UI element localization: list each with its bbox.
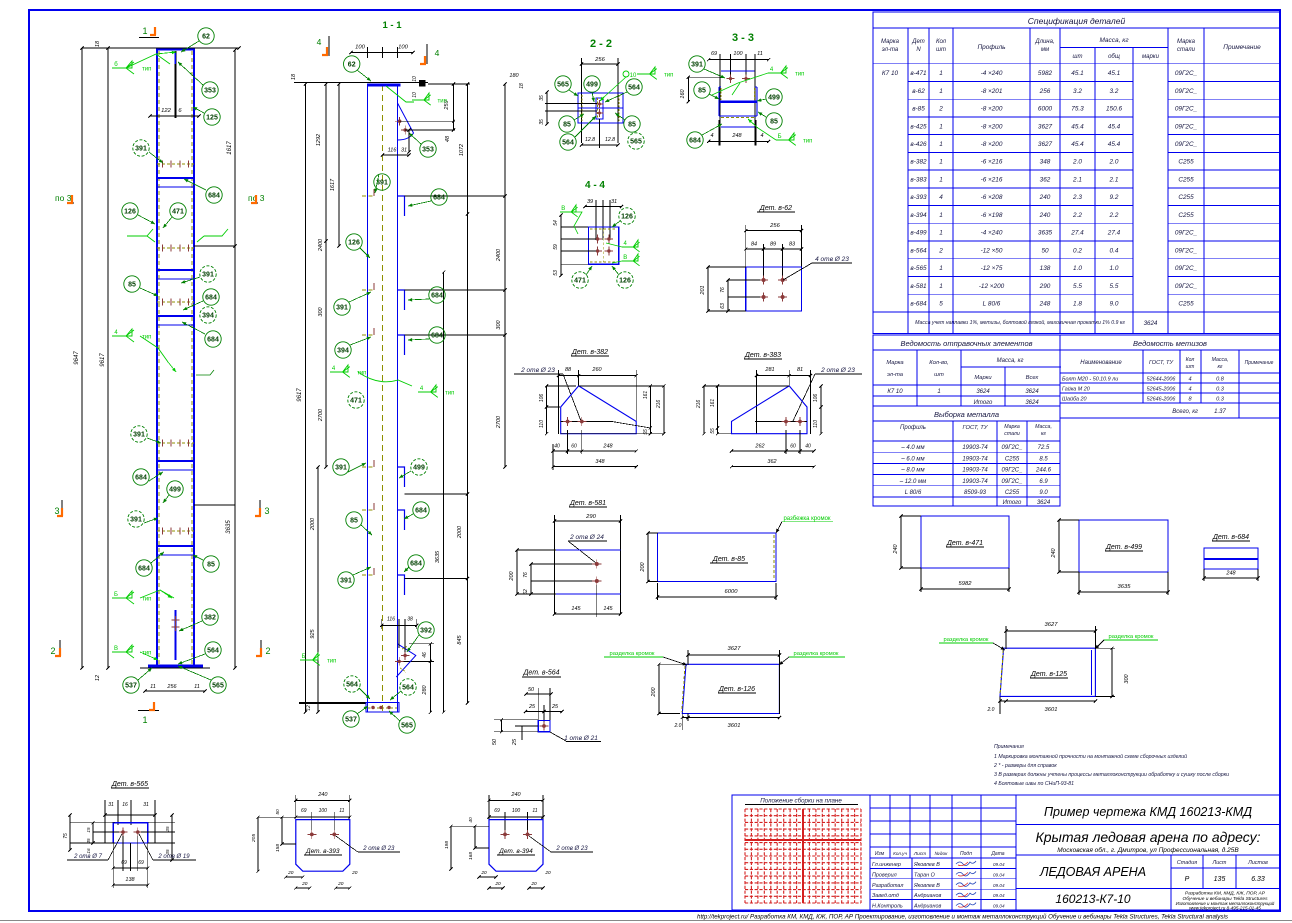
svg-text:3624: 3624 [1025,389,1039,395]
svg-text:1: 1 [939,230,943,237]
svg-text:2: 2 [938,247,943,254]
svg-text:684: 684 [138,566,150,573]
v-126 dims [688,654,779,656]
svg-text:8509-93: 8509-93 [964,490,987,496]
v-565 top dims [105,814,155,816]
svg-text:№док: №док [935,851,949,857]
svg-text:925: 925 [310,628,316,638]
v-684 dim 248 [1204,577,1258,579]
title block arena row [1170,855,1172,910]
v-383 plate triangle mirrored [732,386,808,434]
v-565 plate [113,823,148,843]
svg-text:40: 40 [468,817,474,823]
svg-text:684: 684 [135,475,147,482]
svg-text:– 12.0 мм: – 12.0 мм [899,479,927,485]
svg-text:300: 300 [1124,673,1130,683]
svg-text:2700: 2700 [496,415,502,429]
svg-text:290: 290 [1039,283,1051,290]
svg-text:2.0: 2.0 [1072,159,1082,166]
svg-text:684: 684 [410,561,422,568]
svg-text:в-62: в-62 [912,88,925,95]
balloon 126 left [122,203,138,219]
svg-text:в-426: в-426 [910,141,927,148]
svg-text:шт: шт [1073,54,1083,60]
svg-text:59: 59 [553,244,559,250]
svg-text:Итого: Итого [1003,500,1022,506]
svg-text:– 4.0 мм: – 4.0 мм [900,445,924,451]
svg-text:Марка: Марка [1004,424,1020,430]
v-564 top dim 50 [526,693,551,695]
svg-text:160: 160 [680,88,686,98]
svg-text:Проверил: Проверил [872,872,897,878]
svg-text:Кол-во,: Кол-во, [929,360,948,366]
svg-text:201: 201 [700,285,706,295]
Дет. в-394 plate with chamfers [489,820,543,872]
balloon 684 r3 [205,331,221,347]
svg-text:2.0: 2.0 [987,707,995,713]
balloon 499 [167,481,183,497]
svg-text:244.6: 244.6 [1035,468,1052,474]
svg-text:шт: шт [934,372,944,378]
svg-text:Профиль: Профиль [900,425,926,431]
svg-text:471: 471 [172,209,184,216]
svg-text:2: 2 [265,646,270,656]
svg-text:3635: 3635 [226,520,232,534]
svg-text:3 В размерах должны учтены пр: 3 В размерах должны учтены процессы мета… [994,772,1229,778]
svg-text:5.5: 5.5 [1073,283,1082,290]
title block middle signature table [889,795,891,858]
Дет. в-394 bottom chamfer dims [479,876,496,878]
svg-text:Разработка КМ, КМД, КЖ, ПОР, А: Разработка КМ, КМД, КЖ, ПОР, АР [1185,891,1266,897]
svg-text:161: 161 [643,391,649,400]
svg-text:4: 4 [317,37,322,47]
dim 116/31 gusset [408,130,410,152]
svg-text:разделка кромок: разделка кромок [1109,634,1154,640]
svg-text:391: 391 [691,62,703,69]
svg-text:391: 391 [135,146,147,153]
4-4 left chain [560,215,562,276]
svg-text:ГОСТ, ТУ: ГОСТ, ТУ [1149,360,1175,366]
v-383 left dims [717,386,719,434]
svg-text:45.4: 45.4 [1071,141,1084,148]
svg-text:564: 564 [562,140,574,147]
svg-text:248: 248 [602,444,613,450]
svg-text:18: 18 [519,83,525,89]
svg-text:4: 4 [1188,377,1191,383]
detail v-125 plate [1000,648,1095,696]
svg-text:69: 69 [711,51,717,57]
svg-text:69: 69 [494,808,500,814]
Дет. в-394 holes [503,833,507,837]
svg-text:31: 31 [401,148,407,154]
svg-text:-6 ×198: -6 ×198 [981,212,1003,219]
svg-text:10: 10 [630,73,637,79]
v-85 bottom dim 6000 [658,596,776,598]
v-62 holes [762,278,766,282]
svg-text:1: 1 [939,70,943,77]
spec table header [907,28,909,334]
weld symbol B left [112,591,134,604]
svg-text:19903-74: 19903-74 [962,468,988,474]
v-393 left chain dims [258,816,296,818]
svg-text:-4 ×240: -4 ×240 [981,230,1003,237]
weld symbol tip 4/4 left [112,329,134,342]
svg-text:Дет. в-499: Дет. в-499 [1105,544,1142,551]
svg-text:684: 684 [205,295,217,302]
svg-text:564: 564 [402,685,414,692]
Дет. в-393 holes [310,833,314,837]
svg-text:-12 ×75: -12 ×75 [981,265,1003,272]
svg-text:Наименование: Наименование [1080,360,1122,366]
red assembly grid [745,809,861,903]
svg-text:кг: кг [1217,364,1222,370]
v-62 dim 256 [746,230,802,232]
svg-text:248: 248 [731,133,742,139]
v-382 right dims [649,386,651,434]
svg-text:256: 256 [166,684,177,690]
v-565 left dims [69,815,71,850]
svg-text:27.4: 27.4 [1107,230,1121,237]
svg-text:Дет. в-85: Дет. в-85 [712,556,745,563]
svg-text:240: 240 [317,792,328,798]
svg-text:3.2: 3.2 [1073,88,1082,95]
v-382 hole line [561,421,612,423]
svg-text:разбежка кромок: разбежка кромок [783,516,830,522]
svg-text:85: 85 [698,88,706,95]
brackets right side and left splices 1-1 [373,189,375,196]
svg-text:2 - 2: 2 - 2 [590,38,612,50]
v-383 bottom dims [732,450,815,452]
svg-text:1: 1 [142,26,147,36]
svg-text:1617: 1617 [330,178,336,191]
svg-text:10: 10 [412,92,418,98]
svg-text:9.2: 9.2 [1110,194,1119,201]
svg-text:в-425: в-425 [910,123,927,130]
green tip B bottom [300,653,320,665]
svg-text:12.8: 12.8 [585,137,595,143]
svg-text:11: 11 [532,808,537,814]
svg-text:161: 161 [710,399,716,408]
v-684 angle [1204,548,1258,569]
balloon 62 view1-1 [344,56,360,72]
svg-text:18: 18 [291,73,297,80]
svg-text:тип: тип [664,73,673,79]
svg-text:684: 684 [208,193,220,200]
svg-text:Ведомость метизов: Ведомость метизов [1133,339,1207,348]
svg-text:Н.Контроль: Н.Контроль [872,904,903,910]
svg-text:48: 48 [445,135,451,142]
svg-text:Всего, кг: Всего, кг [1172,409,1198,415]
svg-text:499: 499 [586,82,598,89]
svg-text:50: 50 [528,687,535,693]
svg-text:85: 85 [207,562,215,569]
svg-text:-12 ×50: -12 ×50 [981,247,1003,254]
v-382 plate triangle [561,386,637,434]
2-2 bottom dims 12.8/12.8 [582,144,619,146]
svg-text:280: 280 [422,684,428,695]
svg-text:40: 40 [554,444,560,450]
svg-text:в-565: в-565 [910,265,927,272]
svg-text:150.6: 150.6 [1106,106,1122,113]
v-499 dims [1058,520,1060,572]
svg-text:Марка: Марка [886,360,904,366]
svg-text:тип: тип [357,371,366,377]
svg-text:2.2: 2.2 [1109,212,1119,219]
svg-text:С255: С255 [1005,456,1020,462]
svg-text:240: 240 [1039,194,1051,201]
svg-text:382: 382 [204,615,216,622]
svg-text:52646-2006: 52646-2006 [1147,397,1176,403]
svg-text:11: 11 [339,808,344,814]
view 1-1 column flanges [367,85,369,712]
svg-text:в-394: в-394 [910,212,927,219]
svg-text:39: 39 [587,199,593,205]
svg-text:168: 168 [468,852,474,860]
svg-text:88: 88 [565,367,572,373]
balloon 394 dashed [200,307,216,323]
4-4 top dim [585,206,622,208]
svg-text:83: 83 [789,242,796,248]
svg-text:1: 1 [939,283,943,290]
svg-text:20: 20 [351,870,358,876]
svg-text:52644-2006: 52644-2006 [1147,377,1176,383]
title block left cell polozhenie sborki [869,795,871,910]
balloon 382 [202,609,218,625]
svg-text:158: 158 [275,844,281,852]
svg-text:Масса,: Масса, [1035,424,1052,430]
svg-text:Б: Б [778,134,782,140]
Дет. в-393 dims 69/100/11 [296,816,350,818]
svg-text:09Г2С_: 09Г2С_ [1175,88,1198,95]
svg-text:216: 216 [656,400,662,410]
svg-text:256: 256 [769,223,780,229]
svg-text:Спецификация деталей: Спецификация деталей [1028,16,1126,26]
svg-text:С255: С255 [1178,159,1194,166]
balloon 391 dashed low-left [131,426,147,442]
balloon 684 l4 [133,469,149,485]
svg-text:75.3: 75.3 [1071,106,1084,113]
balloon 684 r2 [203,289,219,305]
balloon 353 [202,82,218,98]
svg-text:09Г2С_: 09Г2С_ [1175,123,1198,130]
svg-text:Московская обл., г. Дмитров, у: Московская обл., г. Дмитров, ул Професси… [1057,846,1239,854]
svg-text:С255: С255 [1178,194,1194,201]
svg-text:Лист: Лист [913,851,926,857]
svg-text:6.9: 6.9 [1039,479,1048,485]
svg-text:2 отв Ø 23: 2 отв Ø 23 [520,367,555,374]
detail Дет. в-394 top dim 240 [489,799,543,801]
svg-text:по 3: по 3 [55,193,72,203]
svg-text:К7 10: К7 10 [882,70,899,77]
svg-text:391: 391 [130,517,142,524]
svg-text:Масса, кг: Масса, кг [1099,37,1129,44]
top cap plate 1-1 [367,84,401,87]
svg-text:126: 126 [348,240,360,247]
weld symbol V left low [112,645,134,658]
svg-text:281: 281 [764,367,774,373]
svg-text:тип: тип [142,335,151,341]
2-2 left dims 35/35 [545,103,597,105]
svg-text:2.1: 2.1 [1109,176,1119,183]
svg-text:2000: 2000 [457,525,463,539]
svg-text:3627: 3627 [1038,123,1053,130]
title block frame [732,795,1280,910]
svg-text:20: 20 [494,881,501,887]
svg-text:60: 60 [790,444,796,450]
svg-text:2: 2 [938,106,943,113]
svg-text:50: 50 [492,738,498,745]
svg-text:499: 499 [169,487,181,494]
2-2 top dim 256 [582,63,619,65]
v-394 left chain dims [451,825,489,827]
svg-text:-8 ×200: -8 ×200 [981,141,1003,148]
svg-text:09Г2С_: 09Г2С_ [1175,141,1198,148]
3-3 bottom dim 4/248/4 [709,140,769,142]
svg-text:260: 260 [591,367,602,373]
svg-text:18: 18 [95,40,101,47]
svg-text:09.04: 09.04 [993,872,1005,877]
balloon 471 mid [170,203,186,219]
svg-text:198: 198 [444,841,450,849]
svg-text:2 * - размеры для справок: 2 * - размеры для справок [993,763,1057,769]
balloon 565 base [210,677,226,693]
svg-text:Масса учет наплавки 1%, метизы: Масса учет наплавки 1%, метизы, болтовой… [915,319,1125,326]
svg-text:09.04: 09.04 [993,862,1005,867]
2-2 center profile [596,98,603,119]
svg-text:09Г2С_: 09Г2С_ [1002,445,1023,451]
svg-text:-6 ×216: -6 ×216 [981,159,1003,166]
svg-text:Марки: Марки [974,375,992,381]
svg-text:565: 565 [557,82,569,89]
svg-text:63: 63 [720,303,726,309]
svg-text:-8 ×201: -8 ×201 [981,88,1003,95]
olive centerline dashed [382,85,384,712]
svg-text:11: 11 [194,684,200,690]
svg-text:Дет. в-684: Дет. в-684 [1212,534,1249,541]
svg-text:69: 69 [121,860,127,866]
svg-text:62: 62 [202,34,210,41]
svg-text:разделка кромок: разделка кромок [794,651,839,657]
svg-text:76: 76 [720,287,726,293]
v-564 left dims [494,719,538,721]
right dim chain 1617/3635 [234,50,236,246]
svg-text:564: 564 [628,85,640,92]
svg-text:12.8: 12.8 [605,137,615,143]
2-2 plate body [578,93,623,123]
svg-text:Крытая ледовая арена по адресу: Крытая ледовая арена по адресу: [1036,829,1261,845]
svg-text:2 отв Ø 23: 2 отв Ø 23 [555,846,588,852]
svg-text:12: 12 [306,705,312,711]
v-383 top dims [757,375,811,377]
v-565 holes [121,830,125,834]
svg-text:Андрианов: Андрианов [913,904,942,910]
svg-text:845: 845 [457,634,463,644]
svg-text:4: 4 [435,48,440,58]
svg-text:391: 391 [335,465,347,472]
balloon 353 v1-1 [420,141,436,157]
svg-text:20: 20 [544,870,551,876]
svg-text:6000: 6000 [1038,106,1053,113]
svg-text:138: 138 [1040,265,1051,272]
spec table bottom mass row [873,311,1280,313]
svg-text:565: 565 [212,683,224,690]
svg-text:565: 565 [630,139,642,146]
svg-text:62: 62 [523,589,529,595]
balloon 391 dashed r [200,266,216,282]
v-382 left dims [546,386,548,434]
svg-text:60: 60 [571,444,577,450]
svg-text:100: 100 [319,808,328,814]
svg-text:В: В [561,206,565,212]
svg-text:564: 564 [346,682,358,689]
svg-text:0.3: 0.3 [1216,397,1225,403]
svg-text:564: 564 [207,648,219,655]
svg-text:20: 20 [337,881,344,887]
svg-text:684: 684 [431,333,443,340]
2-2 balloons [555,76,571,92]
svg-text:4 - 4: 4 - 4 [585,180,605,191]
svg-text:Дет. в-125: Дет. в-125 [1030,671,1067,678]
balloon 85 r4 [203,556,219,572]
svg-text:2000: 2000 [310,517,316,531]
svg-text:2 отв Ø 19: 2 отв Ø 19 [157,854,190,860]
svg-text:Масса, кг: Масса, кг [997,358,1024,364]
svg-text:Яковлев В: Яковлев В [913,883,940,889]
gusset plate v353 [398,103,414,140]
svg-text:248: 248 [1225,571,1236,577]
svg-text:4 Болтовые швы по СНиП-93-81: 4 Болтовые швы по СНиП-93-81 [994,781,1074,787]
svg-text:1: 1 [939,123,943,130]
svg-text:Разработал: Разработал [872,883,903,889]
svg-text:1 - 1: 1 - 1 [382,20,402,31]
svg-text:1 Маркировка монтажной прочно: 1 Маркировка монтажной прочности на монт… [994,753,1187,760]
svg-text:Профиль: Профиль [977,44,1006,51]
svg-text:эл-та: эл-та [882,47,899,53]
4-4 plate [588,227,618,264]
svg-text:Б: Б [302,654,306,660]
svg-text:75: 75 [63,833,69,839]
svg-text:в-684: в-684 [910,301,927,308]
svg-text:55: 55 [710,428,716,434]
svg-text:100: 100 [733,51,743,57]
svg-text:Гайка М 20: Гайка М 20 [1062,386,1090,393]
svg-text:126: 126 [621,214,633,221]
svg-text:110: 110 [539,420,545,428]
svg-text:394: 394 [337,348,349,355]
detail v-471 plate [921,516,1009,568]
svg-text:45.1: 45.1 [1108,70,1121,77]
top dimension line [82,47,239,49]
Дет. в-393 plate with chamfers [296,820,350,872]
svg-text:3635: 3635 [1038,230,1053,237]
svg-text:3624: 3624 [1025,400,1039,406]
svg-text:0.2: 0.2 [1073,247,1082,254]
svg-text:45.1: 45.1 [1071,70,1084,77]
centerline plate at top [175,51,177,118]
svg-text:Дет. в-564: Дет. в-564 [522,670,559,677]
svg-text:46: 46 [422,652,428,658]
svg-text:89: 89 [770,242,776,248]
svg-text:2 отв Ø 24: 2 отв Ø 24 [569,534,604,541]
svg-text:09.04: 09.04 [993,883,1005,888]
svg-text:Кол: Кол [1186,357,1195,363]
svg-text:45: 45 [86,838,91,844]
bottom stub plate [175,610,177,660]
svg-text:1: 1 [937,389,940,395]
svg-text:45.4: 45.4 [1071,123,1084,130]
top dim 100/100 [351,52,413,54]
shipping elements table [873,335,1060,406]
